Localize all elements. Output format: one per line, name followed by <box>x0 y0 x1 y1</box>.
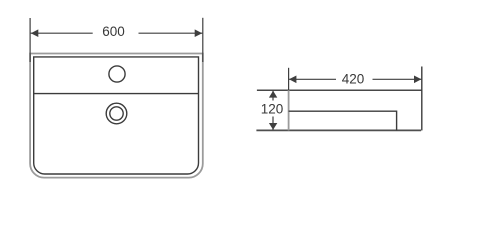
svg-text:600: 600 <box>102 24 125 39</box>
svg-text:420: 420 <box>342 72 365 87</box>
svg-text:120: 120 <box>261 101 284 116</box>
